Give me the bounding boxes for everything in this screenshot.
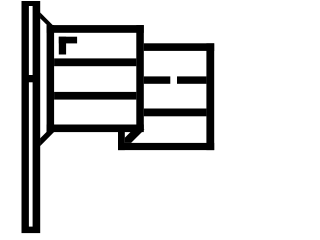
dash segment A	[144, 76, 171, 83]
canton horizontal	[59, 37, 77, 44]
bottom diagonal flag-to-pole	[40, 131, 55, 146]
flag top band	[47, 25, 144, 33]
flag bottom band	[47, 125, 144, 133]
fold stem	[118, 130, 125, 150]
pole joint bridge	[29, 75, 34, 82]
pole inner slot upper (white)	[29, 6, 33, 75]
top diagonal pole-to-flag	[40, 12, 54, 26]
flag right bar	[136, 25, 144, 130]
second flag row3 line	[144, 109, 207, 117]
second flag right bar	[206, 43, 214, 150]
stripe 1	[54, 58, 136, 66]
second flag top band	[144, 43, 214, 51]
canton vertical	[59, 37, 66, 55]
pole inner slot lower (white)	[29, 82, 33, 226]
fold diagonal	[125, 130, 145, 143]
flag left bar	[47, 25, 55, 132]
stripe 2	[54, 92, 136, 100]
flag icon	[0, 0, 236, 236]
pole outer	[22, 1, 41, 233]
dash segment B	[177, 76, 206, 83]
second flag bottom band	[118, 143, 214, 150]
